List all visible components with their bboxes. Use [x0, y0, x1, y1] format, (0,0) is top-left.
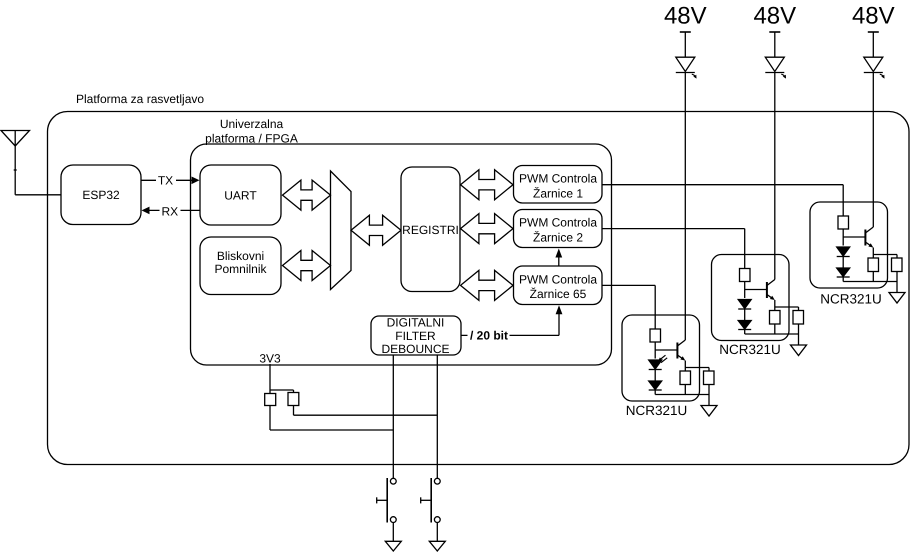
ground S2 — [429, 541, 445, 551]
svg-text:FILTER: FILTER — [395, 329, 436, 343]
svg-text:Platforma za rasvetljavo: Platforma za rasvetljavo — [76, 92, 204, 106]
bidirectional arrow REGISTRI-PWM65 — [461, 270, 514, 300]
bidirectional arrow mux-REGISTRI — [351, 215, 401, 245]
bus mux trapezoid — [331, 171, 352, 290]
switch S2 — [421, 478, 440, 523]
svg-text:TX: TX — [158, 174, 173, 188]
svg-text:NCR321U: NCR321U — [820, 292, 882, 307]
svg-text:NCR321U: NCR321U — [719, 342, 781, 357]
wire emitter Q3 — [872, 248, 874, 255]
resistor R2 pullup — [288, 393, 299, 406]
wire emitter Q2 — [774, 300, 776, 307]
label NCR321U U1 — [626, 403, 688, 418]
block NCR321U U2 — [712, 255, 790, 341]
wire base node to Q2 — [745, 289, 767, 291]
svg-text:/ 20 bit: / 20 bit — [470, 328, 508, 342]
svg-text:48V: 48V — [753, 2, 796, 29]
resistor R3a base — [838, 216, 849, 229]
svg-text:Univerzalna: Univerzalna — [220, 117, 284, 131]
svg-text:Bliskovni: Bliskovni — [217, 249, 264, 263]
resistor R1b emitter — [680, 371, 691, 385]
svg-text:PWM Controla: PWM Controla — [519, 172, 597, 186]
wire R3b to bottom rail — [872, 272, 874, 282]
bidirectional arrow REGISTRI-PWM1 — [461, 170, 514, 200]
svg-text:platforma / FPGA: platforma / FPGA — [205, 132, 298, 146]
block DIGITALNI FILTER DEBOUNCE — [371, 316, 461, 356]
block NCR321U U3 — [810, 202, 888, 288]
resistor R2c shunt — [793, 311, 804, 325]
resistor R3c shunt — [892, 258, 903, 272]
wire stub R1b — [684, 368, 686, 372]
label 3V3 — [259, 352, 281, 366]
supply 48V #3 — [852, 2, 895, 57]
wire R3c to ground — [896, 272, 898, 293]
wire R1c to ground — [708, 385, 710, 406]
resistor R3b emitter — [868, 258, 879, 272]
ground U3 — [889, 293, 905, 304]
svg-text:PWM Controla: PWM Controla — [519, 216, 597, 230]
wire bottom rail U2 — [745, 333, 799, 335]
wire RX UART to ESP32 — [142, 204, 201, 218]
wire base node to Q3 — [843, 236, 865, 238]
wire stub R1c — [708, 368, 710, 372]
wire emitter rail U1 — [685, 367, 709, 369]
wire 3V3 branch — [270, 390, 294, 393]
wire PWM1 out to NCR block 3 — [602, 185, 843, 216]
wire 48V lamp 1 to collector — [684, 73, 686, 341]
wire S1 to ground — [392, 523, 394, 542]
wire bottom rail U1 — [655, 394, 709, 396]
switch S1 — [377, 478, 396, 523]
transistor Q2 — [767, 280, 775, 301]
svg-text:PWM Controla: PWM Controla — [519, 272, 597, 286]
resistor R1c shunt — [704, 371, 715, 385]
label Platforma za rasvetljavo — [76, 92, 204, 106]
wire D3a to D3b — [842, 257, 844, 269]
transistor Q1 — [677, 340, 685, 361]
block PWM Controla Zarnice 1 — [514, 166, 603, 204]
label NCR321U U2 — [719, 342, 781, 357]
supply 48V #2 — [753, 2, 796, 57]
wire DEBOUNCE net 2 — [436, 355, 438, 478]
wire antenna to ESP32 — [15, 194, 61, 196]
block ESP32 — [61, 165, 141, 225]
wire R3a to diode chain — [842, 229, 844, 246]
bidirectional arrow UART-mux — [283, 180, 331, 210]
bidirectional arrow Bliskovni-mux — [283, 251, 331, 281]
diode D3b — [837, 268, 850, 277]
svg-text:UART: UART — [224, 188, 257, 202]
svg-text:ESP32: ESP32 — [82, 188, 120, 202]
svg-text:DIGITALNI: DIGITALNI — [387, 316, 445, 330]
diode D3a — [837, 247, 850, 257]
wire 20 bit bus DEBOUNCE to PWM65 — [461, 305, 562, 342]
wire PWM2 out to NCR block 2 — [602, 229, 745, 269]
diode D1a — [649, 355, 668, 369]
wire emitter rail U2 — [775, 306, 799, 308]
wire R1 pullup to switch net 1 — [270, 406, 393, 431]
wire R2a to diode chain — [744, 282, 746, 299]
svg-text:REGISTRI: REGISTRI — [402, 223, 459, 237]
wire R2c to ground — [798, 324, 800, 345]
svg-text:DEBOUNCE: DEBOUNCE — [381, 342, 449, 356]
transistor Q3 — [865, 227, 873, 248]
wire emitter Q1 — [684, 361, 686, 368]
wire stub R2b — [774, 307, 776, 311]
wire D2b to bottom rail — [744, 330, 746, 335]
block REGISTRI — [401, 167, 460, 292]
wire DEBOUNCE net 1 — [392, 355, 394, 478]
label Univerzalna platforma / FPGA — [205, 117, 298, 146]
wire D2a to D2b — [744, 309, 746, 321]
supply 48V #1 — [664, 2, 707, 57]
bidirectional arrow REGISTRI-PWM2 — [461, 214, 514, 244]
block NCR321U U1 — [622, 315, 700, 401]
wire R2 pullup to switch net 2 — [294, 406, 438, 416]
wire stub R3b — [872, 255, 874, 259]
wire S2 to ground — [436, 523, 438, 542]
wire emitter rail U3 — [873, 254, 897, 256]
svg-text:Žarnice 1: Žarnice 1 — [533, 186, 583, 200]
ground U2 — [791, 345, 807, 356]
ground S1 — [385, 541, 401, 551]
wire base node to Q1 — [655, 349, 677, 351]
wire R1a to diode chain — [654, 342, 656, 359]
svg-text:Pomnilnik: Pomnilnik — [214, 262, 267, 276]
svg-text:Žarnice 65: Žarnice 65 — [530, 287, 587, 301]
wire 48V lamp 2 to collector — [774, 73, 776, 280]
wire R2b to bottom rail — [774, 324, 776, 334]
label NCR321U U3 — [820, 292, 882, 307]
wire D1b to bottom rail — [654, 390, 656, 395]
diode D1b — [649, 381, 662, 390]
wire D3b to bottom rail — [842, 277, 844, 282]
wire D1a to D1b — [654, 370, 656, 382]
svg-text:Žarnice 2: Žarnice 2 — [533, 231, 583, 245]
wire arrow PWM65 to PWM2 — [555, 249, 562, 267]
diode D2a — [738, 300, 751, 310]
wire 3V3 down — [269, 364, 271, 394]
wire stub R2c — [798, 307, 800, 311]
lamp diode D2 — [765, 57, 786, 78]
antenna — [1, 131, 30, 195]
svg-text:3V3: 3V3 — [259, 352, 281, 366]
svg-text:RX: RX — [161, 204, 178, 218]
resistor R2a base — [740, 269, 751, 282]
svg-text:48V: 48V — [664, 2, 707, 29]
wire PWM65 out to NCR block 1 — [602, 285, 655, 329]
block UART — [200, 165, 281, 225]
svg-text:48V: 48V — [852, 2, 895, 29]
lamp diode D3 — [864, 57, 885, 78]
wire TX ESP32 to UART — [141, 174, 200, 188]
block Bliskovni Pomnilnik — [200, 237, 281, 295]
lamp diode D1 — [676, 57, 697, 78]
resistor R1 pullup — [265, 394, 276, 406]
ground U1 — [701, 406, 717, 417]
svg-text:NCR321U: NCR321U — [626, 403, 688, 418]
wire 48V lamp 3 to collector — [872, 73, 874, 228]
wire bottom rail U3 — [843, 281, 897, 283]
outer box Platforma za rasvetljavo — [48, 112, 910, 465]
resistor R1a base — [650, 329, 661, 342]
wire stub R3c — [896, 255, 898, 259]
block PWM Controla Zarnice 65 — [514, 266, 603, 305]
wire R1b to bottom rail — [684, 385, 686, 395]
block PWM Controla Zarnice 2 — [514, 210, 603, 248]
block FPGA Univerzalna platforma — [191, 144, 612, 365]
diode D2b — [738, 321, 751, 330]
resistor R2b emitter — [770, 311, 781, 325]
